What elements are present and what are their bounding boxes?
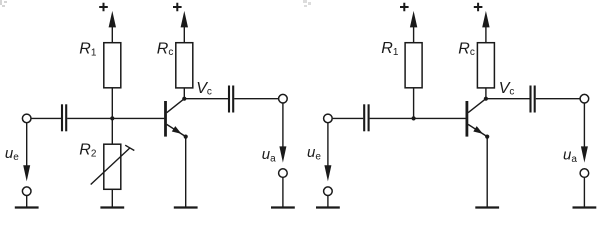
plus supply symbol above Rc (left circuit) — [173, 3, 182, 11]
base node junction dot (right circuit) — [412, 116, 416, 120]
faint cropped-text remnant top-centre — [303, 0, 311, 7]
emitter junction dot (left circuit) — [184, 135, 188, 139]
resistor Rc (left circuit) — [176, 43, 193, 88]
output capacitor left plate (right circuit) — [529, 86, 531, 113]
ground bar under input terminal (right circuit) — [316, 206, 340, 208]
coupling capacitor right plate (left circuit) — [65, 104, 67, 131]
wire R1 bottom to base node (left circuit) — [111, 88, 113, 119]
coupling capacitor left plate (left circuit) — [61, 104, 63, 131]
wire R2 bottom to ground (left circuit) — [111, 189, 113, 206]
supply arrow above R1 (right circuit) — [410, 11, 417, 43]
wire input terminal to coupling capacitor (right circuit) — [333, 117, 364, 119]
collector node junction dot (right circuit) — [484, 97, 488, 101]
supply arrow above Rc (left circuit) — [181, 11, 188, 43]
wire collector node to output capacitor (right circuit) — [486, 98, 530, 100]
u_e voltage arrow (left circuit) — [23, 123, 30, 181]
wire input terminal to coupling capacitor (left circuit) — [32, 117, 62, 119]
transistor base bar (right circuit) — [465, 101, 468, 137]
output lower terminal circle (left circuit) — [279, 169, 288, 178]
faint cropped-text remnant top-left — [0, 0, 7, 7]
wire R1 bottom to base node (right circuit) — [413, 88, 415, 119]
output lower terminal circle (right circuit) — [580, 169, 589, 178]
plus supply symbol above R1 (left circuit) — [99, 3, 108, 11]
wire base node to R2 top (left circuit) — [111, 118, 113, 144]
resistor R1 (left circuit) — [104, 43, 121, 88]
u_a voltage arrow (left circuit) — [279, 103, 286, 162]
ground bar under output terminal (left circuit) — [271, 206, 295, 208]
transistor collector lead (left circuit) — [167, 99, 185, 113]
adjustment diagonal stroke of R2 (left circuit) — [91, 148, 130, 185]
coupling capacitor left plate (right circuit) — [363, 104, 365, 131]
output capacitor left plate (left circuit) — [228, 86, 230, 113]
u_a voltage arrow (right circuit) — [581, 103, 588, 162]
collector node junction dot (left circuit) — [182, 97, 186, 101]
wire emitter to ground (left circuit) — [185, 137, 187, 207]
transistor emitter lead with arrow (right circuit) — [468, 124, 487, 136]
output terminal circle (right circuit) — [580, 94, 589, 103]
emitter junction dot (right circuit) — [485, 135, 489, 139]
transistor emitter lead with arrow (left circuit) — [167, 124, 186, 136]
resistor R1 (right circuit) — [405, 43, 422, 88]
supply arrow above R1 (left circuit) — [109, 11, 116, 43]
ground bar under output terminal (right circuit) — [573, 206, 597, 208]
wire output capacitor to output terminal (right circuit) — [536, 98, 580, 100]
output capacitor right plate (right circuit) — [534, 86, 536, 113]
wire emitter to ground (right circuit) — [486, 137, 488, 207]
ground bar under emitter (left circuit) — [174, 206, 198, 208]
wire capacitor to transistor base (left circuit) — [67, 117, 164, 119]
stem output terminal to ground (right circuit) — [583, 178, 585, 207]
input lower terminal circle (left circuit) — [22, 187, 31, 196]
output terminal circle (left circuit) — [279, 94, 288, 103]
ground bar under R2 (left circuit) — [100, 206, 124, 208]
T-bar tip of R2 adjustment arrow (left circuit) — [125, 145, 134, 150]
ground bar under input terminal (left circuit) — [15, 206, 39, 208]
plus supply symbol above R1 (right circuit) — [400, 3, 409, 11]
base node junction dot (left circuit) — [110, 116, 114, 120]
stem input terminal to ground (right circuit) — [327, 196, 329, 207]
ground bar under emitter (right circuit) — [475, 206, 499, 208]
plus supply symbol above Rc (right circuit) — [474, 3, 483, 11]
input lower terminal circle (right circuit) — [324, 187, 333, 196]
stem output terminal to ground (left circuit) — [282, 178, 284, 207]
coupling capacitor right plate (right circuit) — [368, 104, 370, 131]
output capacitor right plate (left circuit) — [232, 86, 234, 113]
transistor collector lead (right circuit) — [468, 99, 486, 113]
input terminal circle (left circuit) — [22, 114, 31, 123]
stem input terminal to ground (left circuit) — [26, 196, 28, 207]
u_e voltage arrow (right circuit) — [324, 123, 331, 181]
wire Rc bottom to collector node (left circuit) — [183, 88, 185, 99]
resistor Rc (right circuit) — [477, 43, 494, 88]
supply arrow above Rc (right circuit) — [482, 11, 489, 43]
wire collector node to output capacitor (left circuit) — [184, 98, 228, 100]
wire Rc bottom to collector node (right circuit) — [485, 88, 487, 99]
wire capacitor to transistor base (right circuit) — [370, 117, 466, 119]
input terminal circle (right circuit) — [324, 114, 333, 123]
resistor R2 adjustable (left circuit) — [104, 144, 121, 189]
wire output capacitor to output terminal (left circuit) — [234, 98, 278, 100]
transistor base bar (left circuit) — [164, 101, 167, 137]
